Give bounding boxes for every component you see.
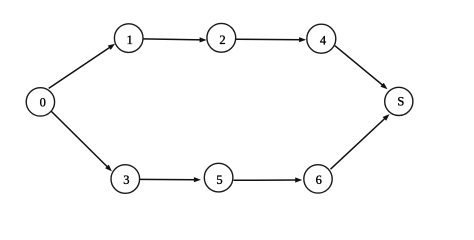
arrowhead edge 0->1 [108, 44, 115, 50]
svg-text:2: 2 [219, 33, 225, 47]
arrowhead edge 6->S [383, 114, 390, 121]
arrowhead edge 1->2 [200, 37, 207, 42]
arrowhead edge 3->5 [194, 177, 201, 182]
node 4 [307, 24, 336, 53]
svg-text:0: 0 [40, 95, 46, 109]
arrowhead edge 5->6 [295, 177, 302, 182]
node 5 [204, 163, 233, 192]
node 1 [114, 24, 143, 53]
node S [385, 87, 413, 115]
wire edge 2->4 [236, 38, 302, 40]
node 0 [26, 88, 54, 116]
svg-text:4: 4 [320, 34, 327, 48]
arrowhead edge 4->S [380, 83, 387, 90]
arrowhead edge 0->3 [105, 165, 112, 172]
wire edge 0->1 [49, 46, 112, 88]
svg-text:6: 6 [316, 173, 322, 187]
wire edge 6->S [331, 117, 387, 169]
node 6 [304, 165, 332, 193]
svg-text:1: 1 [127, 33, 133, 47]
wire edge 3->5 [139, 178, 197, 180]
wire edge 5->6 [234, 179, 298, 181]
svg-text:S: S [397, 95, 404, 109]
node 2 [207, 23, 236, 52]
wire edge 1->2 [143, 39, 202, 40]
svg-text:3: 3 [123, 173, 129, 187]
svg-text:5: 5 [216, 173, 222, 187]
wire edge 0->3 [51, 111, 109, 168]
node 3 [111, 165, 140, 194]
wire edge 4->S [335, 46, 384, 87]
arrowhead edge 2->4 [299, 37, 306, 42]
